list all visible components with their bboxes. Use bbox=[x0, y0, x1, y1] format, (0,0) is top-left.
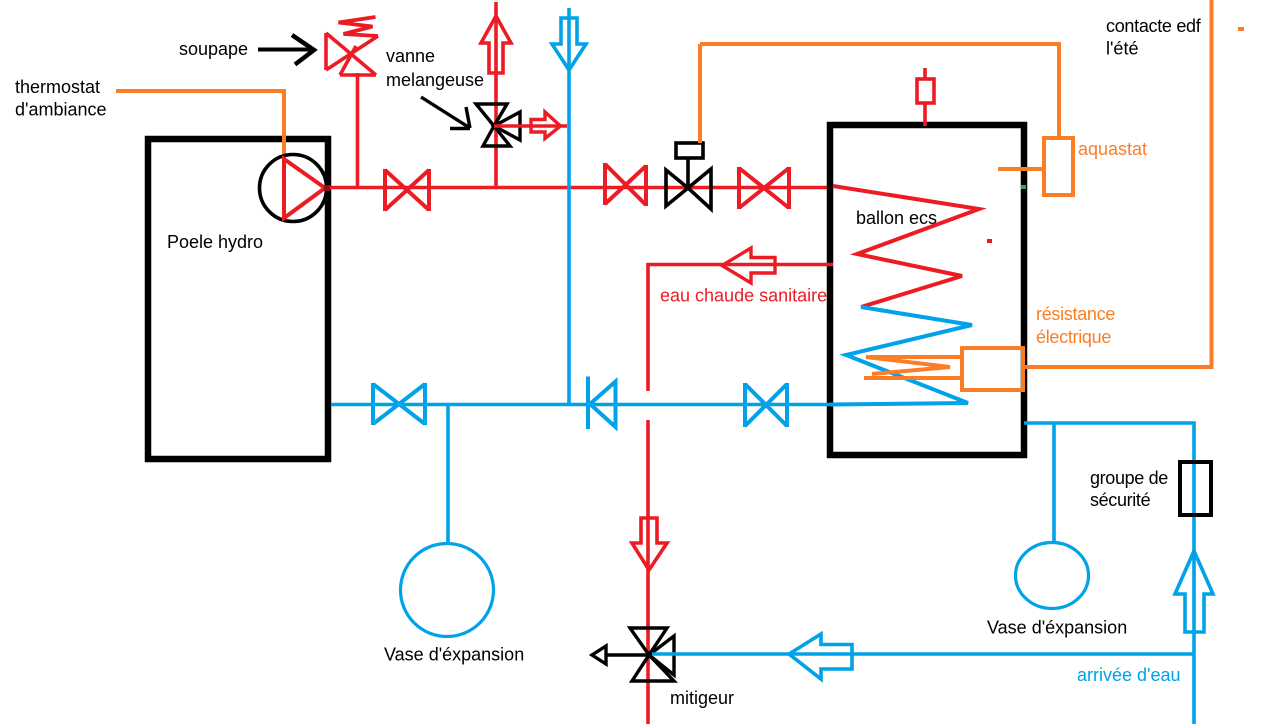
red right block arrow bbox=[531, 112, 561, 139]
mitigeur label bbox=[670, 688, 734, 708]
blue down block arrow bbox=[552, 18, 586, 70]
wire orange edf line bbox=[1023, 0, 1212, 367]
svg-text:soupape: soupape bbox=[179, 39, 248, 59]
svg-text:eau chaude sanitaire: eau chaude sanitaire bbox=[660, 286, 827, 306]
aquastat box bbox=[1044, 138, 1073, 195]
tank ballon ecs bbox=[830, 125, 1024, 455]
blue coil bbox=[830, 307, 972, 405]
svg-text:melangeuse: melangeuse bbox=[386, 70, 484, 90]
pump impeller bbox=[284, 159, 325, 218]
green dot bbox=[1021, 185, 1026, 189]
wire to vase 2 bbox=[1052, 423, 1056, 542]
red down block arrow bbox=[632, 518, 667, 570]
red up block arrow bbox=[481, 16, 511, 73]
svg-text:thermostat: thermostat bbox=[15, 77, 100, 97]
svg-text:Vase d'éxpansion: Vase d'éxpansion bbox=[384, 645, 524, 665]
thermostat d'ambiance label bbox=[15, 77, 107, 120]
svg-text:sécurité: sécurité bbox=[1090, 490, 1151, 510]
wire arrivee d'eau horizontal bbox=[652, 652, 1194, 656]
svg-text:d'ambiance: d'ambiance bbox=[15, 100, 107, 120]
blue left block arrow bbox=[789, 634, 852, 679]
valve V2 red bbox=[605, 163, 646, 206]
wire blue drop line bbox=[567, 8, 571, 404]
svg-text:ballon ecs: ballon ecs bbox=[856, 208, 937, 228]
vase d'expansion label 2 bbox=[987, 618, 1127, 638]
wire to vase 1 bbox=[446, 404, 450, 544]
arrivee d'eau label bbox=[1077, 665, 1181, 685]
soupape spring bbox=[339, 17, 379, 36]
wire orange aquastat line bbox=[700, 44, 1059, 138]
valve V3 red bbox=[739, 167, 789, 209]
valve V4 blue bbox=[373, 383, 425, 425]
vase d'expansion 2 circle bbox=[1016, 543, 1089, 609]
svg-text:vanne: vanne bbox=[386, 46, 435, 66]
soupape stem bbox=[356, 73, 360, 187]
mitigeur valve bbox=[592, 628, 674, 681]
vase d'expansion label 1 bbox=[384, 645, 524, 665]
svg-text:mitigeur: mitigeur bbox=[670, 688, 734, 708]
svg-text:contacte edf: contacte edf bbox=[1106, 16, 1202, 36]
vanne melangeuse label arrow bbox=[421, 97, 470, 129]
wire red melangeuse outlet bbox=[494, 124, 567, 128]
node pump outlet bbox=[324, 185, 330, 191]
vanne melangeuse label bbox=[386, 46, 484, 90]
pump circle bbox=[260, 155, 327, 222]
red dot bbox=[987, 239, 992, 243]
soupape label arrow bbox=[258, 35, 314, 65]
wire orange to motor valve bbox=[698, 44, 702, 143]
svg-text:groupe de: groupe de bbox=[1090, 468, 1168, 488]
resistance electrique label bbox=[1036, 304, 1115, 347]
groupe de securite label bbox=[1090, 468, 1168, 510]
aquastat probe bbox=[998, 167, 1044, 171]
wire orange thermostat line bbox=[116, 91, 284, 158]
svg-text:électrique: électrique bbox=[1036, 327, 1111, 347]
wire red riser bbox=[494, 2, 498, 187]
blue up block arrow bbox=[1175, 551, 1213, 632]
motor valve black bbox=[666, 143, 711, 209]
check valve blue bbox=[588, 377, 616, 430]
svg-text:Poele hydro: Poele hydro bbox=[167, 232, 263, 252]
svg-text:résistance: résistance bbox=[1036, 304, 1115, 324]
vase d'expansion 1 circle bbox=[401, 544, 494, 637]
wire tank to groupe de securite bbox=[1024, 423, 1194, 724]
red left block arrow bbox=[722, 248, 775, 283]
wire blue main return bbox=[331, 403, 830, 407]
wire ECS line bbox=[648, 265, 833, 392]
orange dash bbox=[1238, 27, 1244, 31]
svg-text:aquastat: aquastat bbox=[1078, 139, 1147, 159]
wire red supply main bbox=[325, 186, 833, 190]
vanne melangeuse valve bbox=[476, 104, 520, 146]
wire red down to mitigeur bbox=[646, 420, 650, 724]
svg-text:arrivée d'eau: arrivée d'eau bbox=[1077, 665, 1181, 685]
svg-text:Vase d'éxpansion: Vase d'éxpansion bbox=[987, 618, 1127, 638]
valve V5 blue bbox=[745, 383, 787, 427]
stove Poele hydro bbox=[148, 139, 328, 459]
resistance element bbox=[864, 357, 962, 378]
svg-text:l'été: l'été bbox=[1106, 39, 1138, 59]
soupape label bbox=[179, 39, 248, 59]
resistance box bbox=[962, 348, 1023, 390]
valve V1 red bbox=[385, 169, 429, 211]
Poele hydro label bbox=[167, 232, 263, 252]
groupe de securite box bbox=[1180, 462, 1211, 515]
eau chaude sanitaire label bbox=[660, 286, 827, 306]
aquastat label bbox=[1078, 139, 1147, 159]
contacte edf label bbox=[1106, 16, 1202, 59]
ballon ecs label bbox=[856, 208, 937, 228]
red coil bbox=[833, 186, 979, 307]
soupape valve bbox=[326, 33, 378, 75]
red thermometer bbox=[917, 68, 934, 126]
